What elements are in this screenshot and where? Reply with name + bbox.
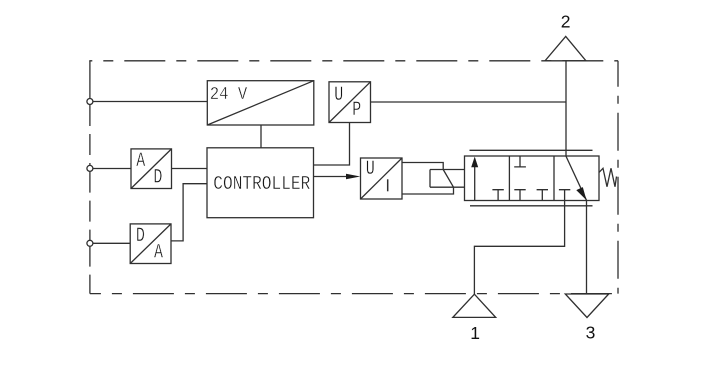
valve left section flow arrowhead [471,157,478,168]
enclosure frame top [89,60,618,62]
enclosure frame left top solid segment [89,61,91,99]
proportional solenoid bottom edge [430,186,465,188]
controller box [207,148,314,218]
proportional solenoid left edge [429,170,431,188]
wire controller to U/P [314,123,350,166]
svg-text:2: 2 [561,12,571,32]
proportional solenoid diagonal [443,170,453,188]
U/I converter box [361,158,403,199]
enclosure frame right [617,61,619,294]
U/I diagonal [361,158,403,199]
svg-text:D: D [136,225,145,248]
svg-text:D: D [153,167,162,190]
enclosure frame left dashed segment C [89,247,91,294]
valve infinite-positioning line below [470,205,593,207]
D/A converter box [130,224,171,264]
svg-text:P: P [352,99,361,122]
wire U/P to port2 line [371,101,567,103]
terminal circle supply [87,99,93,105]
port 1 wire from valve [474,201,564,295]
valve blocked port T bottom 2 [514,190,525,201]
valve left section flow arrow shaft [474,159,476,201]
arrowhead controller to U/I [346,174,360,179]
wire controller to U/I with arrow [314,176,348,178]
port 1 triangle [453,294,496,317]
svg-text:24 V: 24 V [210,85,248,105]
svg-text:3: 3 [586,323,596,343]
valve right section diagonal arrowhead [576,187,588,202]
valve section divider right [553,156,555,201]
terminal circle command input [87,165,93,171]
svg-text:U: U [366,158,375,181]
valve section divider left [508,156,510,201]
wire 24V box to controller [260,125,262,148]
valve body outline [465,156,600,201]
power supply diagonal [207,81,313,125]
wire U/I lower to solenoid [402,187,454,194]
port 3 wire from valve [586,201,588,295]
wire output terminal to D/A [93,242,130,244]
valve right section diagonal flow line [566,156,587,200]
U/P converter box [329,82,371,123]
D/A diagonal [130,224,171,264]
wire input terminal to A/D [93,168,131,170]
valve return spring [599,168,617,187]
svg-text:U: U [334,84,343,107]
valve blocked port T bottom 3 [537,190,548,201]
terminal circle feedback output [87,240,93,246]
port 2 wire down to valve [565,61,567,156]
power supply box 24V [207,81,313,125]
enclosure frame left dashed segment A [89,105,91,165]
enclosure frame bottom [90,293,618,295]
wire U/I upper to solenoid [402,163,443,170]
wire D/A to controller [171,184,207,241]
A/D diagonal [131,149,172,189]
proportional solenoid top edge [430,169,465,171]
port 2 triangle [545,36,586,60]
valve blocked port T bottom 1 [492,190,503,201]
valve blocked port T bottom 4 [559,190,570,201]
enclosure frame left dashed segment B [89,172,91,240]
valve blocked port T top middle [514,156,526,167]
U/I letter I [387,179,389,191]
valve infinite-positioning line above [470,149,593,151]
port 3 triangle [565,294,608,318]
svg-text:1: 1 [470,323,480,343]
svg-text:A: A [154,242,164,265]
svg-text:A: A [136,150,146,173]
A/D converter box [131,149,172,189]
svg-text:CONTROLLER: CONTROLLER [213,173,310,195]
wire supply terminal to 24V box [93,101,207,103]
wire A/D to controller [172,168,208,170]
U/P diagonal [329,82,371,123]
